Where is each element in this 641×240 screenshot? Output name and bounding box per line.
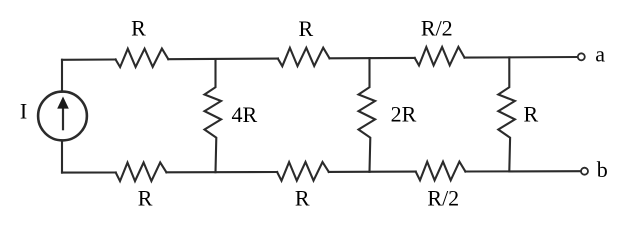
wire left vertical bottom <box>61 140 63 172</box>
resistor R5 (bottom middle R) <box>277 162 329 181</box>
svg-text:4R: 4R <box>232 102 258 127</box>
svg-text:a: a <box>595 41 605 66</box>
resistor R3 (top R/2) <box>415 47 465 66</box>
current source I1 arrow shaft <box>62 106 64 130</box>
svg-text:R: R <box>131 15 146 40</box>
svg-text:2R: 2R <box>391 102 417 127</box>
wire bottom between R4 and R5 <box>166 171 277 173</box>
svg-text:R/2: R/2 <box>427 185 459 210</box>
wire left vertical top <box>61 60 63 92</box>
wire top to terminal a <box>465 56 578 59</box>
wire bottom to terminal b <box>465 170 580 172</box>
resistor R1 (top left R) <box>116 49 169 68</box>
terminal a <box>578 53 585 60</box>
current source I1 circle <box>38 92 87 141</box>
wire top between R2 and R3 <box>330 57 415 59</box>
resistor R8 (2R shunt) <box>359 58 376 172</box>
resistor R2 (top middle R) <box>278 48 330 66</box>
svg-text:R: R <box>523 102 538 127</box>
wire bottom-left segment <box>62 171 116 173</box>
wire bottom between R5 and R6 <box>329 171 416 173</box>
svg-text:R: R <box>299 16 314 41</box>
terminal b <box>581 168 588 175</box>
svg-text:I: I <box>20 99 27 124</box>
svg-text:b: b <box>597 157 608 182</box>
resistor R9 (R shunt right) <box>498 57 515 171</box>
wire top-left segment <box>62 58 116 60</box>
resistor R4 (bottom left R) <box>116 162 167 181</box>
resistor R6 (bottom R/2) <box>416 162 466 181</box>
current source I1 arrow head <box>57 97 69 109</box>
svg-text:R: R <box>138 185 153 210</box>
resistor R7 (4R shunt) <box>205 59 222 172</box>
svg-text:R: R <box>295 185 310 210</box>
svg-text:R/2: R/2 <box>421 16 453 41</box>
wire top between R1 and R2 <box>168 58 278 61</box>
